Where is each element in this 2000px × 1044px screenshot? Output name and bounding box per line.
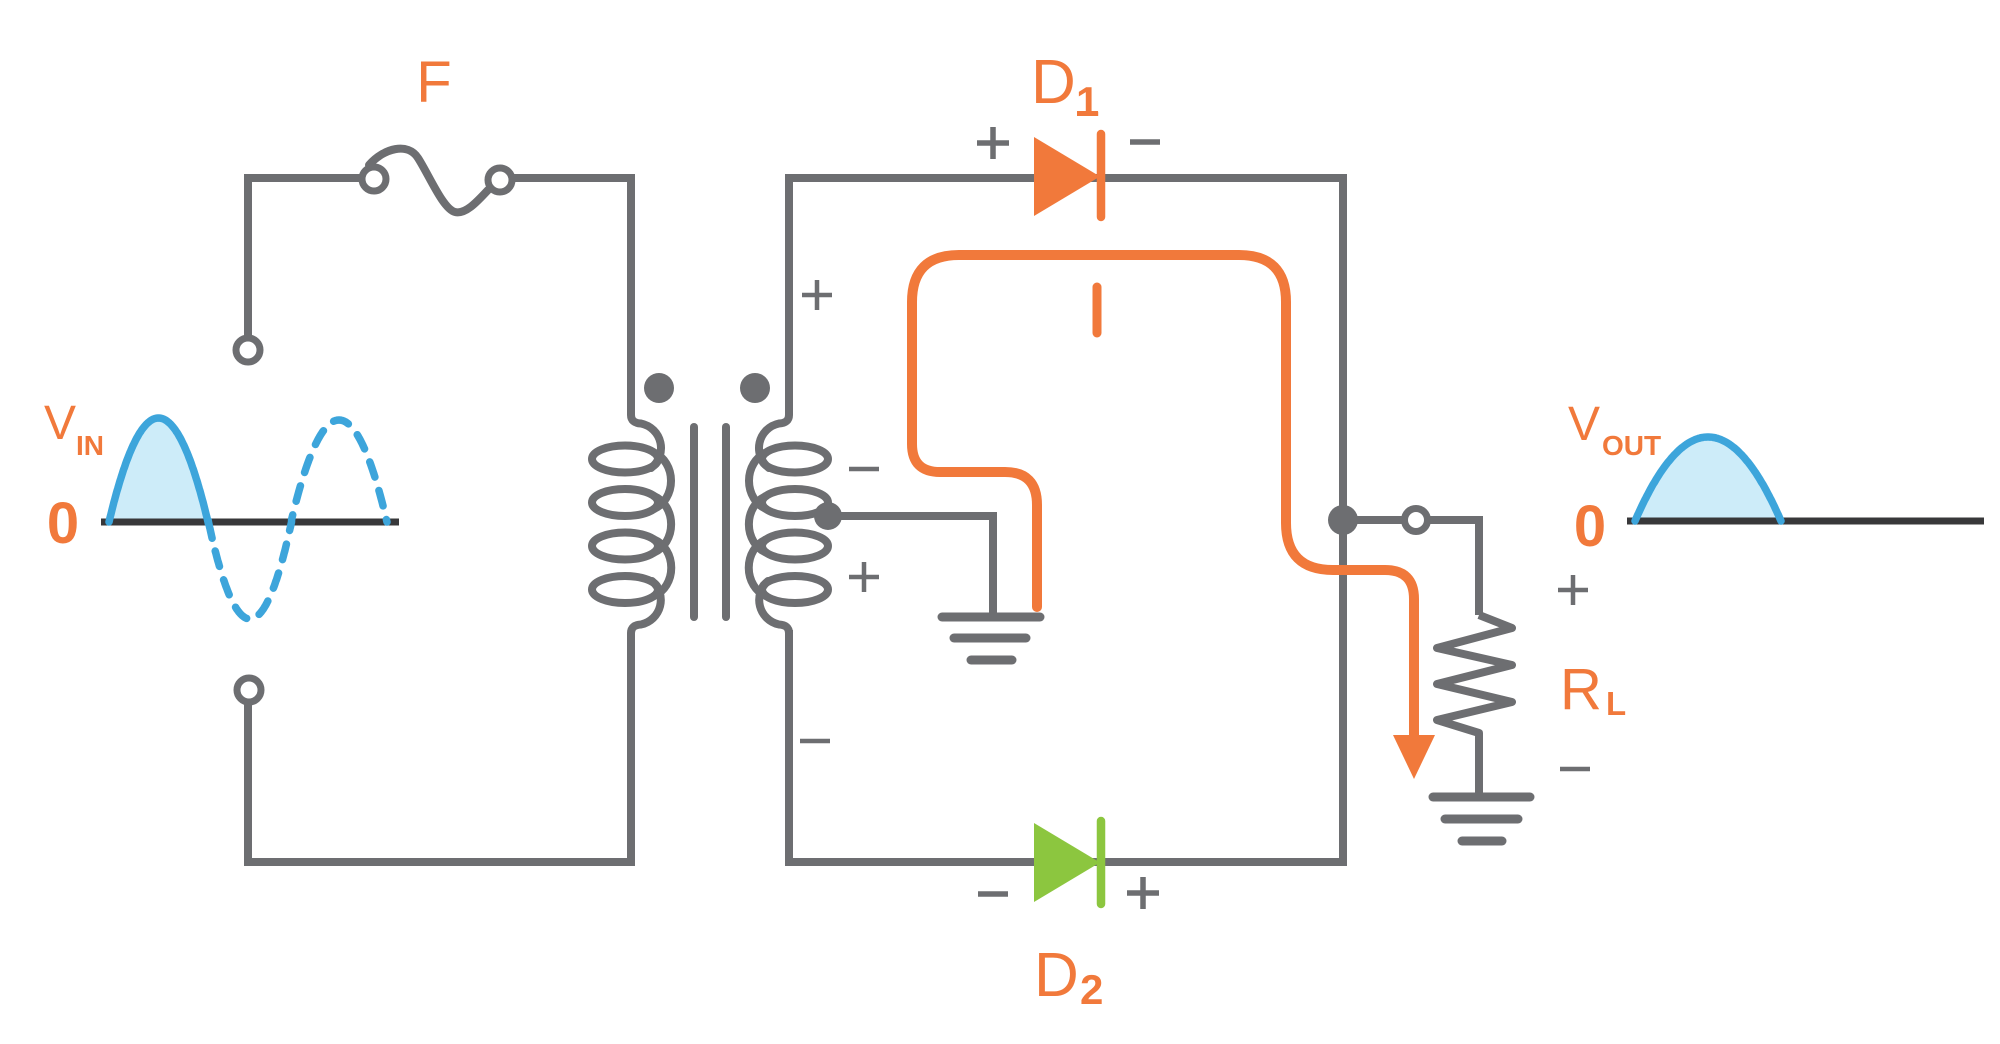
svg-text:V: V	[1568, 398, 1600, 451]
svg-text:R: R	[1560, 657, 1602, 722]
svg-text:1: 1	[1076, 78, 1099, 125]
svg-text:0: 0	[1574, 494, 1606, 559]
svg-text:OUT: OUT	[1602, 430, 1661, 461]
svg-text:L: L	[1606, 685, 1626, 722]
svg-text:IN: IN	[76, 430, 104, 461]
svg-text:F: F	[416, 50, 451, 115]
svg-text:V: V	[44, 397, 76, 450]
svg-text:0: 0	[47, 491, 79, 556]
svg-text:D: D	[1031, 48, 1076, 117]
svg-text:D: D	[1034, 941, 1079, 1010]
svg-text:2: 2	[1080, 966, 1103, 1013]
